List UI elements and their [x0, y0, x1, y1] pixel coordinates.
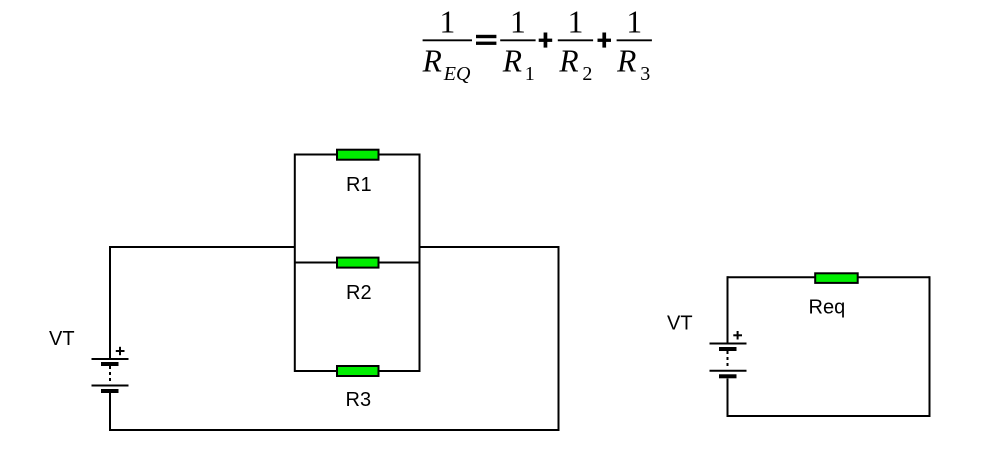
- wire: battery bottom lead: [109, 392, 111, 431]
- wire: right rail to outer rail: [420, 246, 559, 248]
- svg-text:R: R: [558, 44, 578, 79]
- battery dashed link: [727, 351, 729, 369]
- wire: battery VT to left rail: [110, 246, 295, 248]
- resistor R3: [337, 366, 379, 376]
- battery VT (left): [92, 347, 129, 393]
- wire: right battery bottom lead: [727, 379, 729, 418]
- equals sign: [476, 35, 496, 38]
- battery plate long (bottom cell +): [710, 370, 747, 372]
- battery plate long (bottom cell +): [92, 385, 129, 387]
- wire: parallel box top: [295, 154, 420, 156]
- battery dashed link: [109, 366, 111, 384]
- fraction bar 4: [617, 39, 652, 41]
- svg-text:R2: R2: [346, 282, 372, 304]
- equation 1/Req = 1/R1 + 1/R2 + 1/R3: [422, 5, 652, 86]
- resistor R1: [337, 150, 379, 160]
- svg-text:VT: VT: [667, 312, 693, 334]
- wire: right circuit top: [728, 276, 930, 278]
- fraction bar 3: [558, 39, 593, 41]
- svg-text:1: 1: [626, 5, 642, 40]
- battery plate short thick (top cell -): [101, 362, 119, 366]
- svg-text:1: 1: [510, 5, 526, 40]
- svg-text:1: 1: [440, 5, 456, 40]
- wire: R3 row (box bottom): [295, 370, 420, 372]
- plus polarity mark: [733, 334, 742, 336]
- battery plate short thick (bottom cell -): [719, 374, 737, 378]
- wire: bottom return: [109, 429, 559, 431]
- battery plate short thick (bottom cell -): [101, 389, 119, 393]
- plus sign 2: [598, 39, 612, 42]
- svg-text:3: 3: [640, 63, 650, 85]
- wire: parallel box right rail: [419, 154, 421, 373]
- wire: battery top lead: [109, 246, 111, 359]
- wire: outer right rail: [558, 246, 560, 431]
- wire: R2 row: [295, 262, 420, 264]
- resistor R2: [337, 258, 379, 268]
- svg-text:R: R: [502, 44, 522, 79]
- svg-text:R1: R1: [346, 174, 372, 196]
- svg-text:1: 1: [525, 63, 535, 85]
- wire: parallel box left rail: [294, 154, 296, 373]
- svg-text:VT: VT: [49, 328, 75, 350]
- battery VT (right): [710, 331, 747, 378]
- svg-text:R3: R3: [346, 389, 372, 411]
- wire: right circuit left rail: [727, 276, 729, 343]
- battery plate long (top cell +): [710, 343, 747, 345]
- fraction bar 2: [500, 39, 535, 41]
- svg-text:2: 2: [582, 63, 592, 85]
- svg-text:Req: Req: [809, 297, 846, 319]
- plus polarity mark: [116, 350, 125, 352]
- wire: right circuit right rail: [929, 276, 931, 417]
- svg-text:R: R: [422, 44, 442, 79]
- svg-text:R: R: [616, 44, 636, 79]
- wire: right circuit bottom: [727, 415, 930, 417]
- svg-text:1: 1: [568, 5, 584, 40]
- svg-text:EQ: EQ: [443, 63, 471, 85]
- plus sign 1: [539, 39, 553, 42]
- battery plate long (top cell +): [92, 358, 129, 360]
- fraction bar 1: [423, 39, 472, 41]
- battery plate short thick (top cell -): [719, 347, 737, 351]
- resistor Req: [815, 273, 858, 283]
